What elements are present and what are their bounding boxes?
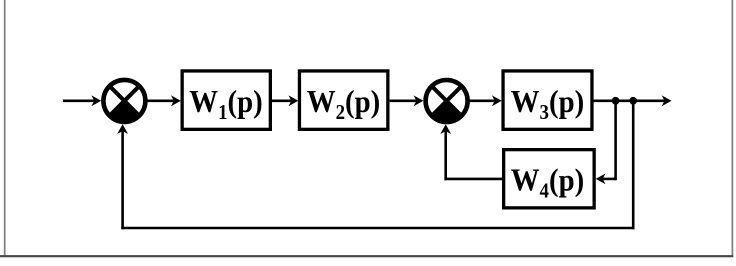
block W4: [504, 150, 595, 208]
wire: W3 to output: [593, 95, 671, 106]
summing junction S1: [103, 80, 145, 122]
wire: up into bottom of S2: [440, 124, 451, 180]
block W1: [182, 71, 270, 129]
wire: input arrow into summing junction S1: [63, 95, 101, 106]
wire: arrow into right side of W4: [596, 174, 616, 185]
wire: S2 to block W3: [468, 95, 502, 106]
wire: W1 to W2: [272, 95, 298, 106]
node A (takeoff dot 1): [612, 97, 620, 105]
block W2: [299, 71, 387, 129]
wire: node B down (outer feedback): [632, 101, 635, 230]
wire: outer feedback bottom run: [121, 227, 634, 230]
wire: W2 to summing junction S2: [390, 95, 424, 106]
block W3: [503, 71, 592, 129]
wire: node A down to W4 input level: [614, 101, 617, 180]
wire: W4 output left: [444, 178, 502, 181]
wire: up into bottom of S1: [117, 124, 128, 229]
wire: S1 to block W1: [146, 95, 181, 106]
summing junction S2: [426, 80, 468, 122]
node B (takeoff dot 2): [629, 97, 637, 105]
